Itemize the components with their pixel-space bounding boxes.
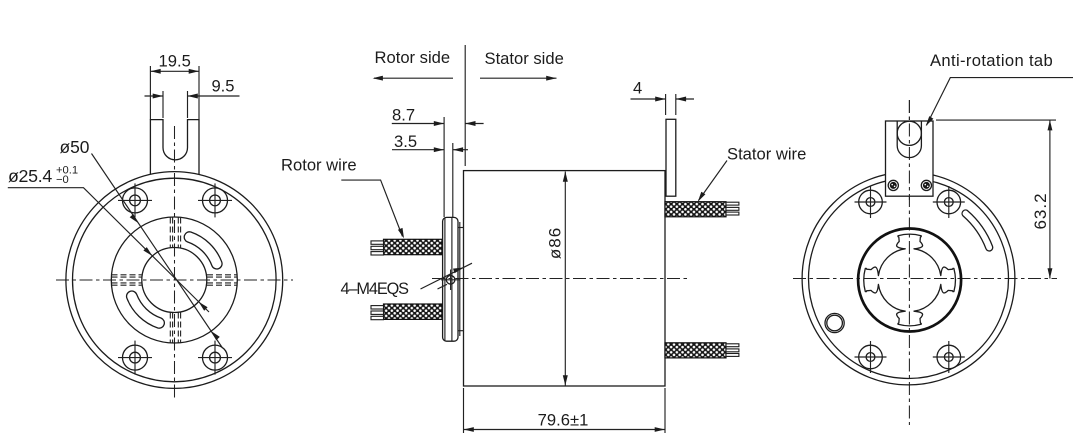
svg-text:9.5: 9.5 bbox=[211, 77, 234, 96]
stator wire bundle top bbox=[665, 202, 726, 217]
rotor wire leads top bbox=[371, 241, 384, 255]
4-M4EQS leader bbox=[421, 263, 473, 289]
right view: bolt hole top-left bbox=[855, 186, 887, 218]
rotor wire bundle bottom bbox=[384, 304, 443, 319]
left view: middle circle Ø50 bbox=[111, 217, 237, 343]
dim 8.7: dimension line bbox=[392, 123, 444, 125]
right view: horizontal center line bbox=[793, 278, 1057, 280]
dim 3.5: extension line bbox=[452, 143, 454, 217]
svg-text:63.2: 63.2 bbox=[1031, 192, 1050, 229]
dim 63.2: dimension line bbox=[1049, 120, 1051, 278]
dim 19.5: dimension line with arrows bbox=[150, 70, 199, 72]
stator wire leads bottom bbox=[726, 344, 739, 357]
right view: arc slot upper-right bbox=[962, 210, 993, 251]
left view: inner bore circle Ø25.4 bbox=[142, 248, 207, 313]
right view: small hole lower-left (double circle) bbox=[825, 313, 844, 332]
left view: horizontal center line bbox=[56, 279, 293, 281]
middle view: flange rounded rect bbox=[443, 217, 458, 341]
dim 9.5: extension lines bbox=[162, 91, 164, 118]
svg-text:ø25.4: ø25.4 bbox=[8, 166, 52, 186]
svg-text:Rotor wire: Rotor wire bbox=[281, 156, 357, 175]
left view: serration marks right bbox=[207, 275, 237, 285]
right view: tab pin circle bbox=[897, 121, 921, 145]
left view: rim chamfer circle bbox=[73, 178, 277, 382]
rotor wire bundle top bbox=[384, 239, 443, 254]
left view: anti-rotation tab outline bbox=[150, 120, 199, 175]
rotor side arrow bbox=[374, 77, 453, 79]
M4 screw hole on flange bbox=[446, 276, 455, 285]
svg-text:19.5: 19.5 bbox=[159, 52, 191, 71]
svg-text:Stator wire: Stator wire bbox=[727, 145, 806, 164]
left view: bolt hole bottom-left bbox=[118, 341, 152, 375]
right view: anti-rotation tab (white fill over rim) bbox=[886, 121, 934, 196]
svg-text:3.5: 3.5 bbox=[394, 132, 417, 151]
middle view: spacer step lines bbox=[458, 227, 464, 229]
right view: vertical center line bbox=[908, 100, 910, 425]
dim ø50: leader line through circle bbox=[92, 154, 223, 349]
stator wire leads top bbox=[726, 202, 739, 215]
svg-text:ø50: ø50 bbox=[60, 137, 90, 157]
right view: outer circle bbox=[802, 172, 1015, 385]
left view: arc slot upper-right bbox=[184, 232, 222, 269]
dim ø25.4: leader line through bore bbox=[8, 188, 209, 312]
right view: tab vertical center dashes bbox=[908, 100, 910, 200]
right view: bold bore circle bbox=[858, 229, 961, 332]
svg-text:−0: −0 bbox=[56, 174, 69, 186]
svg-text:Stator side: Stator side bbox=[485, 49, 564, 68]
right view: tab U-slot bbox=[897, 121, 921, 158]
left view: vertical center line bbox=[174, 126, 176, 399]
right view: rim chamfer circle bbox=[809, 179, 1009, 379]
left view: bolt hole top-right bbox=[198, 183, 232, 217]
svg-text:4: 4 bbox=[633, 79, 642, 98]
right view: tab screw left bbox=[888, 180, 898, 190]
svg-text:4–M4EQS: 4–M4EQS bbox=[341, 280, 410, 298]
dim ø86: dimension line with arrows bbox=[564, 172, 566, 386]
svg-text:Anti-rotation tab: Anti-rotation tab bbox=[930, 51, 1053, 70]
middle view: stator tab (side) bbox=[666, 119, 676, 196]
svg-text:Rotor side: Rotor side bbox=[375, 48, 451, 67]
right view: bolt hole top-right bbox=[933, 186, 965, 218]
stator wire leader bbox=[699, 161, 728, 201]
dim 4: dimension line bbox=[631, 98, 666, 100]
svg-text:79.6±1: 79.6±1 bbox=[538, 410, 589, 429]
dim 19.5: extension lines bbox=[149, 66, 151, 120]
left view: serration marks top bbox=[170, 218, 180, 248]
svg-text:8.7: 8.7 bbox=[392, 105, 415, 124]
left view: serration marks left bbox=[112, 275, 142, 285]
dim 63.2: extension line top bbox=[936, 119, 1056, 121]
left view: bolt hole top-left bbox=[118, 183, 152, 217]
middle view: horizontal center line bbox=[432, 278, 688, 280]
dim 4: extension lines bbox=[665, 94, 667, 115]
left view: outer circle (body Ø86) bbox=[66, 172, 283, 389]
anti-rotation tab leader bbox=[927, 78, 1074, 126]
middle view: body rectangle bbox=[464, 171, 666, 386]
rotor wire leader bbox=[341, 180, 402, 236]
left view: serration marks bottom bbox=[170, 313, 180, 343]
rotor wire leads bottom bbox=[371, 306, 384, 320]
stator side arrow bbox=[480, 77, 557, 79]
dim 79.6±1: extension lines bbox=[463, 388, 465, 433]
left view: arc slot lower-left bbox=[127, 291, 165, 328]
dim 3.5: dimension line bbox=[392, 149, 444, 151]
stator wire bundle bottom bbox=[665, 343, 726, 358]
dim 8.7: extension line bbox=[443, 117, 445, 217]
right view: bolt hole bottom-right bbox=[933, 341, 965, 373]
dim 79.6±1: dimension line bbox=[464, 429, 666, 431]
middle view: flange inner lines bbox=[444, 218, 446, 341]
svg-text:ø86: ø86 bbox=[546, 227, 565, 259]
left view: bolt hole bottom-right bbox=[198, 341, 232, 375]
right view: castellated bore profile bbox=[864, 234, 956, 326]
right view: tab screw right bbox=[921, 180, 931, 190]
dim 9.5: dimension line with outside arrows bbox=[145, 95, 164, 97]
middle view: mounting plane divider line bbox=[464, 45, 466, 166]
right view: bolt hole bottom-left bbox=[855, 341, 887, 373]
